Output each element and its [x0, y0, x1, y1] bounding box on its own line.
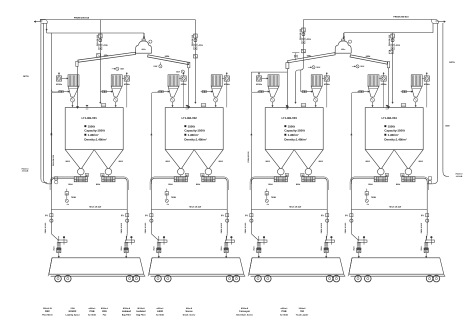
- svg-text:(E)-: (E)-: [221, 214, 225, 217]
- svg-text:-C01: -C01: [198, 44, 204, 47]
- svg-text:760B: 760B: [171, 196, 176, 199]
- svg-text:Air Slide: Air Slide: [156, 313, 165, 316]
- svg-text:Loading Spout: Loading Spout: [66, 313, 80, 316]
- svg-text:PSB: PSB: [282, 310, 287, 313]
- svg-text:8F06a: 8F06a: [256, 83, 263, 86]
- svg-text:Capacity:1500t: Capacity:1500t: [284, 129, 304, 133]
- svg-text:-C0: -C0: [66, 203, 69, 206]
- svg-text:7624: 7624: [220, 247, 223, 251]
- svg-text:P604-10-410: P604-10-410: [44, 223, 47, 233]
- svg-text:7624: 7624: [420, 247, 423, 251]
- svg-text:-C0: -C0: [166, 203, 169, 206]
- svg-text:PSB: PSB: [90, 310, 95, 313]
- svg-text:8006: 8006: [166, 160, 170, 163]
- svg-text:MXA-10-410: MXA-10-410: [389, 206, 402, 209]
- svg-text:760B: 760B: [371, 196, 376, 199]
- svg-text:8F06a: 8F06a: [181, 83, 188, 86]
- svg-text:1.45t/m³: 1.45t/m³: [288, 133, 299, 137]
- svg-text:P604-08-010: P604-08-010: [299, 29, 302, 40]
- svg-text:7624: 7624: [153, 247, 156, 251]
- svg-text:-C01: -C01: [103, 44, 109, 47]
- svg-text:RF6: RF6: [102, 310, 107, 313]
- svg-text:8F06a: 8F06a: [381, 83, 388, 86]
- svg-text:P604-08-010: P604-08-010: [191, 35, 194, 46]
- svg-text:Bag Filter: Bag Filter: [136, 313, 145, 316]
- svg-text:-C01: -C01: [306, 38, 312, 41]
- svg-text:760: 760: [300, 310, 305, 313]
- svg-text:P604-10-410: P604-10-410: [244, 223, 247, 233]
- svg-text:8006: 8006: [319, 160, 323, 163]
- svg-text:410 A/B: 410 A/B: [22, 170, 29, 173]
- svg-text:1.45t/m³: 1.45t/m³: [388, 133, 399, 137]
- svg-text:-C01: -C01: [395, 44, 401, 47]
- svg-text:7624: 7624: [53, 247, 56, 251]
- svg-text:760B: 760B: [71, 196, 76, 199]
- svg-text:(E)-: (E)-: [321, 214, 325, 217]
- svg-text:Flow Meter: Flow Meter: [42, 313, 53, 316]
- svg-text:(E)-: (E)-: [145, 214, 149, 217]
- svg-text:(E)-: (E)-: [45, 214, 49, 217]
- svg-text:8006: 8006: [66, 160, 70, 163]
- svg-text:P604-10-410: P604-10-410: [144, 223, 147, 233]
- svg-text:8609: 8609: [445, 125, 449, 128]
- svg-text:Density:1.45t/m³: Density:1.45t/m³: [184, 138, 206, 142]
- svg-text:Screw: Screw: [185, 310, 192, 313]
- svg-text:7624: 7624: [353, 247, 356, 251]
- svg-text:P604-10-410: P604-10-410: [420, 223, 423, 233]
- svg-text:Truck Loader: Truck Loader: [296, 313, 309, 316]
- svg-text:(E)-: (E)-: [245, 214, 249, 217]
- svg-text:RETN: RETN: [23, 75, 29, 78]
- svg-text:Disch. Screw: Disch. Screw: [183, 313, 196, 316]
- svg-text:Density:1.45t/m³: Density:1.45t/m³: [84, 138, 106, 142]
- svg-text:1.45t/m³: 1.45t/m³: [88, 133, 99, 137]
- svg-text:(E)-: (E)-: [345, 214, 349, 217]
- svg-text:Density:1.45t/m³: Density:1.45t/m³: [384, 138, 406, 142]
- svg-text:LT1-BB-004: LT1-BB-004: [382, 116, 398, 120]
- svg-text:LT1-BB-001: LT1-BB-001: [82, 116, 98, 120]
- svg-text:(E)-: (E)-: [421, 214, 425, 217]
- svg-text:RETN: RETN: [449, 61, 455, 64]
- svg-text:8F06a: 8F06a: [224, 83, 231, 86]
- svg-text:Air Slide: Air Slide: [280, 313, 289, 316]
- svg-text:Capacity:1500t: Capacity:1500t: [84, 129, 104, 133]
- svg-text:FROM-200-010: FROM-200-010: [393, 15, 409, 18]
- svg-text:MXA-10-410: MXA-10-410: [189, 206, 202, 209]
- svg-text:8F06a: 8F06a: [124, 83, 131, 86]
- svg-text:8006: 8006: [119, 160, 123, 163]
- svg-text:Isolated: Isolated: [136, 310, 146, 313]
- svg-text:Capacity:1500t: Capacity:1500t: [184, 129, 204, 133]
- svg-text:Bag Filter: Bag Filter: [122, 313, 131, 316]
- svg-text:8006: 8006: [219, 160, 223, 163]
- svg-text:M-NRF: M-NRF: [69, 310, 77, 313]
- svg-text:FROM-200-010: FROM-200-010: [74, 16, 90, 19]
- svg-text:RSC: RSC: [45, 310, 50, 313]
- svg-text:P604-08-010: P604-08-010: [52, 155, 55, 166]
- svg-text:Density:1.45t/m³: Density:1.45t/m³: [284, 138, 306, 142]
- svg-text:410 A/B: 410 A/B: [456, 175, 463, 178]
- svg-text:-C0: -C0: [266, 203, 269, 206]
- svg-text:7624: 7624: [120, 247, 123, 251]
- svg-text:Silo Disch. Screw: Silo Disch. Screw: [236, 313, 253, 316]
- svg-text:Conveyor: Conveyor: [239, 310, 250, 313]
- svg-text:8F06a: 8F06a: [424, 83, 431, 86]
- svg-text:LT1-BB-002: LT1-BB-002: [182, 116, 198, 120]
- svg-text:7624: 7624: [320, 247, 323, 251]
- svg-text:P604-10-410: P604-10-410: [220, 223, 223, 233]
- svg-text:MXA-10-410: MXA-10-410: [89, 206, 102, 209]
- svg-text:605d: 605d: [366, 55, 371, 58]
- svg-text:8006: 8006: [266, 160, 270, 163]
- svg-text:P604-08-010: P604-08-010: [96, 35, 99, 46]
- svg-text:8006: 8006: [419, 160, 423, 163]
- svg-text:AS90: AS90: [157, 310, 164, 313]
- svg-text:P604-10-410: P604-10-410: [320, 223, 323, 233]
- svg-text:7624: 7624: [253, 247, 256, 251]
- svg-text:1.45t/m³: 1.45t/m³: [188, 133, 199, 137]
- svg-text:P604-08-010: P604-08-010: [247, 152, 250, 163]
- svg-text:605b: 605b: [165, 55, 170, 58]
- svg-text:Air Slide: Air Slide: [88, 313, 97, 316]
- svg-text:Capacity:1500t: Capacity:1500t: [384, 129, 404, 133]
- svg-text:MXA-10-410: MXA-10-410: [289, 206, 302, 209]
- svg-text:P604-10-410: P604-10-410: [120, 223, 123, 233]
- svg-text:P604-08-010: P604-08-010: [388, 35, 391, 46]
- svg-text:760B: 760B: [271, 196, 276, 199]
- svg-text:LT1-BB-003: LT1-BB-003: [282, 116, 298, 120]
- svg-text:-C0: -C0: [366, 203, 369, 206]
- svg-text:8F06a: 8F06a: [56, 83, 63, 86]
- svg-text:8006: 8006: [366, 160, 370, 163]
- svg-text:8F06a: 8F06a: [324, 83, 331, 86]
- svg-text:Isolated: Isolated: [122, 310, 132, 313]
- svg-text:(E)-: (E)-: [121, 214, 125, 217]
- svg-text:P604-10-410: P604-10-410: [344, 223, 347, 233]
